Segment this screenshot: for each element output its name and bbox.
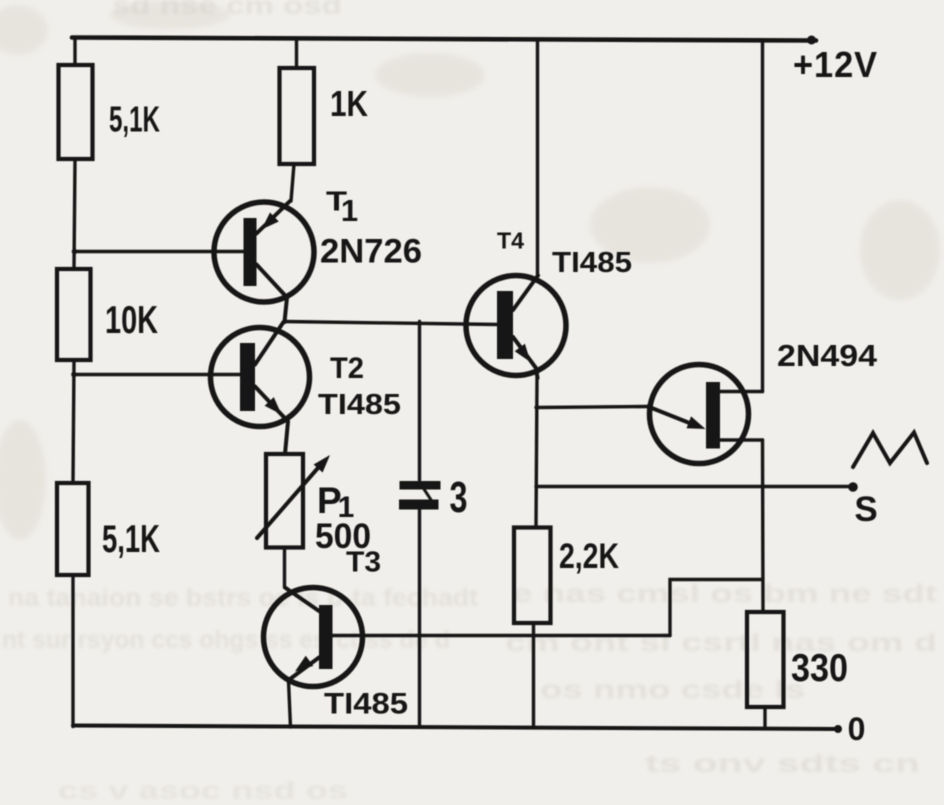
resistor R 10K [57, 269, 91, 360]
resistor R 5,1K bottom [57, 483, 89, 575]
svg-text:3: 3 [450, 473, 468, 522]
svg-text:5,1K: 5,1K [109, 99, 160, 140]
svg-text:330: 330 [791, 647, 848, 690]
wire T1 base from divider [75, 250, 244, 253]
svg-text:+12V: +12V [793, 44, 878, 85]
svg-text:T4: T4 [497, 228, 524, 254]
svg-text:10K: 10K [105, 299, 158, 342]
svg-text:5,1K: 5,1K [102, 518, 160, 561]
wire T4 collector to +12V [536, 40, 539, 276]
svg-text:e nas cmsl os bm ne sdt: e nas cmsl os bm ne sdt [512, 580, 938, 608]
svg-text:cs v asoc nsd os: cs v asoc nsd os [58, 777, 348, 805]
svg-text:TI485: TI485 [324, 688, 408, 721]
wire 2N494 b2 to +12V rail [761, 40, 764, 392]
wire 1K bottom to T1 [291, 164, 294, 201]
transistor T2 [211, 322, 310, 454]
node 0 terminal dot [834, 725, 842, 733]
svg-text:S: S [854, 490, 877, 529]
wire collector node T1/T2 to T4 base [284, 322, 498, 325]
wire T4 emitter node vertical [536, 378, 537, 528]
resistor R 330 [747, 612, 784, 707]
wire T2 base from divider [74, 373, 240, 376]
wire 2N494 b1 down [761, 440, 765, 612]
node top rail end dot [807, 36, 816, 45]
potentiometer P1 [257, 454, 330, 548]
wire top rail +12V [72, 38, 816, 41]
wire output S line [536, 485, 852, 488]
svg-text:1K: 1K [330, 83, 368, 124]
resistor R 5,1K top [59, 65, 93, 159]
svg-text:cm ont sl csrtl nas om d: cm ont sl csrtl nas om d [505, 629, 937, 657]
svg-text:ts onv sdts cn: ts onv sdts cn [645, 750, 920, 778]
wire 2,2K to rail [532, 623, 535, 728]
node S terminal dot [848, 482, 858, 492]
wire node to 2N494 emitter [536, 407, 648, 408]
resistor R 1K [280, 68, 315, 164]
capacitor C 3 [399, 322, 441, 728]
node junction dot divider/T1 base [72, 249, 78, 255]
svg-text:TI485: TI485 [552, 247, 632, 279]
transistor T3 [264, 588, 671, 687]
svg-text:T2: T2 [330, 352, 364, 385]
svg-text:2N494: 2N494 [777, 338, 878, 373]
wire P1 to T3 [283, 548, 286, 588]
wire T3 base step to 330 node [670, 580, 763, 636]
wire left branch vertical [73, 39, 75, 727]
wire 330 to rail [763, 707, 766, 729]
svg-text:nt sur rsyon ccs ohgs ss esrct: nt sur rsyon ccs ohgs ss esrctlss de d [2, 626, 450, 654]
svg-text:2N726: 2N726 [320, 233, 422, 271]
svg-text:TI485: TI485 [318, 389, 401, 421]
wire 1K top [295, 41, 298, 69]
node junction dot divider/T2 base [71, 372, 77, 378]
svg-text:na tanaion se bstrs oe ls b-ta: na tanaion se bstrs oe ls b-ta fechadt [8, 584, 479, 612]
transistor T1 [214, 201, 314, 322]
transistor T4 [466, 276, 566, 379]
waveform sawtooth icon [853, 433, 927, 468]
resistor R 2,2K [514, 528, 551, 624]
svg-text:T3: T3 [346, 547, 381, 579]
svg-text:1: 1 [341, 193, 358, 228]
svg-text:2,2K: 2,2K [559, 537, 619, 576]
svg-text:os nmo csde ls: os nmo csde ls [540, 676, 805, 704]
wire bottom rail 0 [73, 726, 838, 730]
svg-text:0: 0 [848, 711, 866, 747]
transistor 2N494 unijunction [648, 365, 763, 464]
wire T3 emitter to rail [289, 681, 291, 727]
svg-text:sd nse cm osd: sd nse cm osd [112, 0, 342, 20]
